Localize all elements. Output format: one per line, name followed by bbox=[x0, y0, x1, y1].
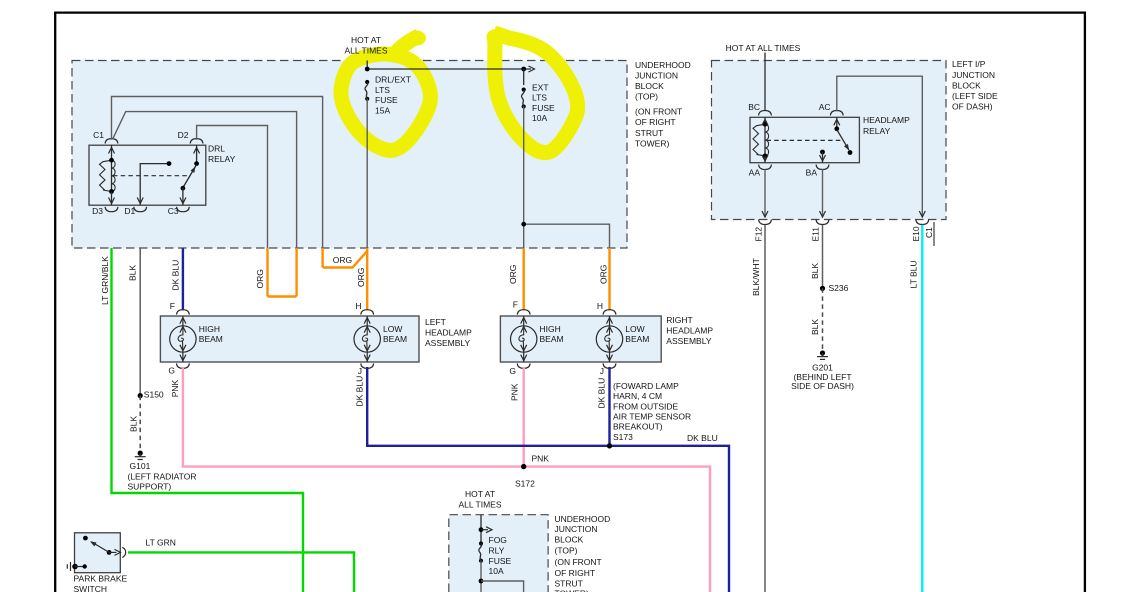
svg-text:HIGH: HIGH bbox=[199, 324, 220, 334]
label PNK (right) bbox=[509, 383, 519, 401]
svg-text:LEFT I/P: LEFT I/P bbox=[952, 59, 986, 69]
wire LT GRN from park brake switch bbox=[128, 552, 354, 592]
svg-text:EXT: EXT bbox=[532, 82, 549, 92]
connector BC bbox=[748, 102, 771, 115]
wire DRL fuse output (internal) bbox=[366, 99, 368, 248]
svg-text:FUSE: FUSE bbox=[375, 95, 398, 105]
svg-text:SIDE OF DASH): SIDE OF DASH) bbox=[791, 381, 854, 391]
svg-text:ASSEMBLY: ASSEMBLY bbox=[666, 336, 712, 346]
wire DK BLU from left low beam J bbox=[367, 367, 729, 592]
svg-text:BLK: BLK bbox=[128, 265, 138, 281]
svg-text:E11: E11 bbox=[811, 227, 821, 242]
svg-text:S150: S150 bbox=[144, 390, 164, 400]
label RIGHT HEADLAMP ASSEMBLY bbox=[666, 315, 713, 346]
svg-text:LT GRN/BLK: LT GRN/BLK bbox=[100, 256, 110, 305]
underhood junction block (bottom, fog) box bbox=[449, 515, 548, 592]
svg-text:E10: E10 bbox=[911, 226, 921, 241]
svg-text:HOT AT ALL TIMES: HOT AT ALL TIMES bbox=[726, 43, 801, 53]
svg-text:PNK: PNK bbox=[509, 383, 519, 401]
splice S173 bbox=[607, 443, 612, 448]
splice S172 bbox=[515, 454, 549, 489]
svg-text:BLK: BLK bbox=[129, 416, 139, 432]
wire fog fuse output bbox=[479, 561, 524, 592]
wire hot feed bus with arrow bbox=[365, 61, 535, 73]
svg-text:FROM OUTSIDE: FROM OUTSIDE bbox=[613, 401, 678, 411]
svg-text:BLOCK: BLOCK bbox=[635, 81, 664, 91]
label UNDERHOOD JUNCTION BLOCK (TOP) right of box bbox=[635, 60, 691, 149]
connector G (right assembly) bbox=[509, 363, 530, 376]
DRL relay coil bbox=[100, 145, 116, 205]
connector C1 (DRL relay) bbox=[93, 130, 118, 143]
svg-text:S173: S173 bbox=[613, 432, 633, 442]
svg-text:DRL/EXT: DRL/EXT bbox=[375, 75, 411, 85]
label LT GRN/BLK bbox=[100, 256, 110, 305]
connector J (left assembly) bbox=[358, 363, 374, 375]
svg-text:G: G bbox=[168, 366, 175, 376]
connector E10/C1 bbox=[911, 220, 934, 246]
label S173 breakout note bbox=[613, 381, 691, 442]
label DK BLU (C3 wire) bbox=[171, 260, 181, 291]
svg-text:LT GRN: LT GRN bbox=[146, 538, 176, 548]
left headlamp assembly box bbox=[160, 316, 419, 362]
DRL relay armature dashed link bbox=[113, 175, 189, 177]
svg-text:HIGH: HIGH bbox=[540, 324, 561, 334]
svg-text:HOT AT: HOT AT bbox=[351, 35, 381, 45]
label FOG RLY FUSE 10A bbox=[489, 535, 512, 576]
label DK BLU (horizontal run) bbox=[687, 433, 718, 443]
svg-text:(FOWARD LAMP: (FOWARD LAMP bbox=[613, 381, 679, 391]
svg-text:HOT AT: HOT AT bbox=[465, 489, 495, 499]
label PARK BRAKE SWITCH bbox=[74, 573, 128, 592]
svg-text:ALL TIMES: ALL TIMES bbox=[345, 46, 388, 56]
label G201 (BEHIND LEFT SIDE OF DASH) bbox=[791, 363, 854, 391]
svg-text:BREAKOUT): BREAKOUT) bbox=[613, 422, 663, 432]
wire ORG to right low beam H bbox=[608, 248, 610, 310]
label HOT AT ALL TIMES (underhood top) bbox=[345, 35, 388, 56]
svg-text:LTS: LTS bbox=[375, 85, 390, 95]
wire LT BLU from E10 bbox=[921, 225, 923, 592]
svg-text:C3: C3 bbox=[168, 206, 179, 216]
wire BLK dashed to G101 bbox=[139, 396, 141, 451]
bulb right low beam bbox=[596, 316, 622, 362]
svg-text:PARK BRAKE: PARK BRAKE bbox=[74, 573, 128, 583]
svg-text:C1: C1 bbox=[924, 227, 934, 238]
svg-text:(ON FRONT: (ON FRONT bbox=[555, 557, 602, 567]
connector AC bbox=[819, 102, 844, 115]
wire AA to F12 exit bbox=[762, 169, 768, 217]
svg-text:10A: 10A bbox=[532, 113, 547, 123]
svg-text:15A: 15A bbox=[375, 105, 390, 115]
highlight loop around DRL/EXT LTS fuse bbox=[341, 31, 430, 151]
label BLK (to G201) bbox=[810, 319, 820, 335]
label BLK/WHT bbox=[751, 258, 761, 296]
wire PNK from left high beam G bbox=[183, 367, 710, 592]
label G101 (LEFT RADIATOR SUPPORT) bbox=[128, 461, 197, 492]
svg-text:OF RIGHT: OF RIGHT bbox=[635, 117, 676, 127]
svg-text:ASSEMBLY: ASSEMBLY bbox=[425, 338, 471, 348]
headlamp relay BA contact bbox=[820, 150, 826, 163]
label LT GRN bbox=[146, 538, 176, 548]
splice S150 bbox=[138, 390, 164, 400]
wire ORG to right high beam F bbox=[523, 248, 525, 310]
svg-text:LTS: LTS bbox=[532, 93, 547, 103]
connector at park brake switch bbox=[122, 547, 125, 557]
connector F (left assembly) bbox=[170, 301, 190, 315]
wire BA to E11 exit bbox=[820, 169, 826, 217]
park brake switch contacts bbox=[83, 536, 121, 556]
svg-text:ORG: ORG bbox=[255, 269, 265, 288]
svg-text:RLY: RLY bbox=[489, 546, 505, 556]
label HIGH BEAM (right) bbox=[540, 324, 564, 344]
underhood junction block (top) box bbox=[72, 61, 627, 249]
wire fog feed bbox=[479, 515, 492, 544]
connector J (right assembly) bbox=[600, 363, 616, 376]
label LEFT HEADLAMP ASSEMBLY bbox=[425, 317, 472, 348]
fuse EXT LTS 10A bbox=[521, 88, 525, 109]
svg-text:F: F bbox=[513, 300, 518, 310]
svg-text:D1: D1 bbox=[124, 206, 135, 216]
svg-text:DK BLU: DK BLU bbox=[597, 378, 607, 409]
label ORG (U-jumper) bbox=[255, 269, 265, 288]
wire ORG to left low beam H bbox=[366, 248, 368, 310]
svg-text:C1: C1 bbox=[93, 130, 104, 140]
svg-text:ALL TIMES: ALL TIMES bbox=[459, 499, 502, 509]
label DRL RELAY bbox=[208, 144, 236, 164]
label LOW BEAM (left) bbox=[383, 324, 407, 344]
wire LT GRN/BLK from D3 bbox=[112, 248, 304, 592]
svg-text:DK BLU: DK BLU bbox=[687, 433, 718, 443]
connector E11 bbox=[811, 220, 829, 242]
ground G101 bbox=[135, 451, 146, 460]
label LOW BEAM (right) bbox=[625, 324, 649, 344]
wire C1 feed line bbox=[112, 97, 323, 249]
connector G (left assembly) bbox=[168, 363, 189, 375]
svg-text:ORG: ORG bbox=[508, 265, 518, 284]
svg-text:JUNCTION: JUNCTION bbox=[635, 70, 678, 80]
svg-text:ORG: ORG bbox=[599, 265, 609, 284]
label EXT LTS FUSE 10A bbox=[532, 82, 555, 123]
splice S236 bbox=[820, 283, 849, 293]
svg-text:BEAM: BEAM bbox=[540, 334, 564, 344]
headlamp relay switch blade bbox=[834, 117, 853, 155]
svg-text:UNDERHOOD: UNDERHOOD bbox=[635, 60, 691, 70]
svg-text:LOW: LOW bbox=[383, 324, 402, 334]
label BLK (ground wire) bbox=[129, 416, 139, 432]
svg-text:DRL: DRL bbox=[208, 144, 225, 154]
svg-text:OF DASH): OF DASH) bbox=[952, 102, 993, 112]
label HEADLAMP RELAY bbox=[863, 115, 910, 136]
svg-text:RIGHT: RIGHT bbox=[666, 315, 692, 325]
connector BA bbox=[806, 165, 829, 178]
fuse FOG RLY 10A bbox=[479, 541, 483, 562]
bulb left high beam bbox=[170, 316, 196, 362]
svg-text:D2: D2 bbox=[178, 130, 189, 140]
svg-text:H: H bbox=[597, 301, 603, 311]
svg-text:BLK: BLK bbox=[810, 263, 820, 279]
svg-text:OF RIGHT: OF RIGHT bbox=[555, 568, 596, 578]
wire BLK/WHT from F12 bbox=[764, 225, 766, 592]
svg-text:JUNCTION: JUNCTION bbox=[952, 70, 995, 80]
svg-text:DK BLU: DK BLU bbox=[355, 376, 365, 407]
label BLK (E11) bbox=[810, 263, 820, 279]
label HIGH BEAM (left) bbox=[199, 324, 223, 344]
svg-text:PNK: PNK bbox=[170, 379, 180, 397]
connector H (left assembly) bbox=[355, 301, 373, 315]
svg-text:HEADLAMP: HEADLAMP bbox=[863, 115, 910, 125]
svg-text:RELAY: RELAY bbox=[208, 154, 236, 164]
svg-text:SUPPORT): SUPPORT) bbox=[128, 482, 172, 492]
wire PNK from right high beam G bbox=[523, 367, 525, 467]
svg-text:(LEFT SIDE: (LEFT SIDE bbox=[952, 91, 998, 101]
DRL relay box bbox=[89, 145, 206, 205]
svg-text:RELAY: RELAY bbox=[863, 126, 891, 136]
connector AA bbox=[749, 165, 772, 178]
svg-text:FUSE: FUSE bbox=[489, 556, 512, 566]
label PNK (left) bbox=[170, 379, 180, 397]
connector D3 (DRL relay) bbox=[92, 206, 118, 216]
label ORG (link) bbox=[333, 255, 352, 265]
label ORG (right high beam) bbox=[508, 265, 518, 284]
left I/P junction block box bbox=[712, 61, 947, 220]
wire DK BLU from C3 to left high beam F bbox=[182, 248, 184, 310]
label DK BLU (left J) bbox=[355, 376, 365, 407]
svg-text:BLK: BLK bbox=[810, 319, 820, 335]
connector D2 (DRL relay) bbox=[178, 130, 203, 143]
connector F12 bbox=[754, 220, 772, 242]
svg-text:10A: 10A bbox=[489, 566, 504, 576]
wire hot feed to BC bbox=[764, 53, 766, 112]
svg-text:HARN, 4 CM: HARN, 4 CM bbox=[613, 391, 662, 401]
wire AC loop to E10 bbox=[837, 76, 926, 217]
label LEFT I/P JUNCTION BLOCK (LEFT SIDE OF DASH) bbox=[952, 59, 998, 111]
park brake switch box bbox=[75, 533, 121, 573]
label UNDERHOOD JUNCTION BLOCK (fog box) bbox=[555, 514, 611, 592]
svg-text:LOW: LOW bbox=[625, 324, 644, 334]
svg-text:ORG: ORG bbox=[333, 255, 352, 265]
svg-text:AIR TEMP SENSOR: AIR TEMP SENSOR bbox=[613, 412, 691, 422]
svg-text:(TOP): (TOP) bbox=[555, 545, 578, 555]
svg-text:HEADLAMP: HEADLAMP bbox=[666, 326, 713, 336]
headlamp relay armature dashed link bbox=[767, 139, 842, 141]
svg-text:BLOCK: BLOCK bbox=[555, 535, 584, 545]
wire EXT fuse output (internal) bbox=[521, 69, 609, 248]
svg-text:TOWER): TOWER) bbox=[555, 589, 589, 592]
wire ORG U-jumper below junction block bbox=[268, 248, 297, 297]
bulb right high beam bbox=[511, 316, 537, 362]
connector D1 (DRL relay) bbox=[124, 206, 146, 216]
svg-text:BLK/WHT: BLK/WHT bbox=[751, 258, 761, 296]
svg-text:DK BLU: DK BLU bbox=[171, 260, 181, 291]
svg-text:SWITCH: SWITCH bbox=[74, 584, 108, 592]
connector H (right assembly) bbox=[597, 301, 616, 315]
label DRL/EXT LTS FUSE 15A bbox=[375, 75, 411, 116]
wire BLK from D1 to S150 bbox=[139, 248, 141, 396]
wire BLK from E11 to S236 bbox=[822, 225, 824, 289]
connector C3 (DRL relay) bbox=[168, 206, 190, 216]
svg-text:PNK: PNK bbox=[532, 454, 550, 464]
svg-text:STRUT: STRUT bbox=[555, 578, 583, 588]
label BLK (D1 wire) bbox=[128, 265, 138, 281]
bulb left low beam bbox=[354, 316, 380, 362]
svg-text:S172: S172 bbox=[515, 479, 535, 489]
svg-text:(LEFT RADIATOR: (LEFT RADIATOR bbox=[128, 471, 197, 481]
svg-text:BEAM: BEAM bbox=[199, 334, 223, 344]
svg-text:F: F bbox=[170, 301, 175, 311]
wire DK BLU from right low beam J bbox=[608, 367, 610, 446]
svg-text:AA: AA bbox=[749, 168, 761, 178]
svg-text:LEFT: LEFT bbox=[425, 317, 446, 327]
svg-text:FOG: FOG bbox=[489, 535, 507, 545]
svg-text:S236: S236 bbox=[829, 283, 849, 293]
svg-text:BLOCK: BLOCK bbox=[952, 80, 981, 90]
svg-text:BEAM: BEAM bbox=[625, 334, 649, 344]
svg-text:(TOP): (TOP) bbox=[635, 92, 658, 102]
label HOT AT ALL TIMES (fog) bbox=[459, 489, 502, 509]
wire D2 output line bbox=[197, 126, 268, 249]
park brake switch case ground bbox=[67, 562, 87, 571]
svg-text:BEAM: BEAM bbox=[383, 334, 407, 344]
label ORG (left low beam) bbox=[356, 268, 366, 287]
connector F (right assembly) bbox=[513, 300, 530, 315]
headlamp relay coil bbox=[753, 117, 769, 162]
svg-text:AC: AC bbox=[819, 102, 831, 112]
fuse DRL/EXT LTS 15A bbox=[365, 80, 369, 101]
svg-text:JUNCTION: JUNCTION bbox=[555, 524, 598, 534]
svg-text:ORG: ORG bbox=[356, 268, 366, 287]
DRL relay switch blade bbox=[180, 145, 200, 205]
svg-text:TOWER): TOWER) bbox=[635, 138, 669, 148]
svg-text:FUSE: FUSE bbox=[532, 103, 555, 113]
svg-text:D3: D3 bbox=[92, 206, 103, 216]
svg-text:BC: BC bbox=[748, 102, 760, 112]
svg-text:J: J bbox=[600, 366, 604, 376]
wire ORG link from C1 feed to low-beam wire bbox=[323, 248, 368, 268]
label HOT AT ALL TIMES (I/P) bbox=[726, 43, 801, 53]
svg-text:H: H bbox=[355, 301, 361, 311]
svg-text:HEADLAMP: HEADLAMP bbox=[425, 328, 472, 338]
svg-text:UNDERHOOD: UNDERHOOD bbox=[555, 514, 611, 524]
svg-text:STRUT: STRUT bbox=[635, 128, 663, 138]
svg-text:(ON FRONT: (ON FRONT bbox=[635, 107, 682, 117]
ground G201 bbox=[817, 350, 828, 359]
DRL relay contact from D1 bbox=[137, 161, 171, 205]
label LT BLU bbox=[909, 260, 919, 288]
svg-text:BA: BA bbox=[806, 168, 818, 178]
svg-text:LT BLU: LT BLU bbox=[909, 260, 919, 288]
highlight loop around EXT LTS fuse bbox=[487, 29, 578, 153]
svg-text:F12: F12 bbox=[754, 227, 764, 242]
wire C1-D2 jumper line bbox=[113, 112, 297, 248]
label ORG (right low beam) bbox=[599, 265, 609, 284]
svg-text:G: G bbox=[509, 366, 516, 376]
svg-text:J: J bbox=[358, 366, 362, 376]
wire BLK dashed to G201 bbox=[822, 288, 824, 350]
headlamp relay box bbox=[750, 117, 859, 162]
svg-text:G101: G101 bbox=[130, 461, 151, 471]
right headlamp assembly box bbox=[500, 316, 661, 362]
label DK BLU (right J) bbox=[597, 378, 607, 409]
